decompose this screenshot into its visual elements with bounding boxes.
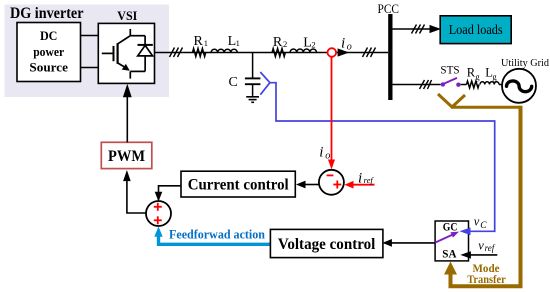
arrow into load [430, 25, 442, 33]
svg-text:C: C [229, 75, 238, 90]
current control box [181, 171, 295, 197]
PCC bus bar [388, 14, 392, 100]
mode transfer arrow into SA [449, 274, 453, 289]
svg-text:Transfer: Transfer [467, 274, 506, 286]
wire Lg to grid [499, 84, 502, 86]
DC power source block [17, 23, 81, 82]
svg-text:v: v [478, 238, 484, 252]
wire iref into S1 [352, 184, 375, 186]
transistor emitter arrow [122, 64, 130, 71]
wire S2 to PWM [127, 181, 146, 213]
wire S1 to current control [305, 184, 319, 186]
svg-text:i: i [319, 145, 323, 161]
sum junction S2 [146, 201, 171, 226]
svg-text:DG inverter: DG inverter [10, 5, 84, 22]
svg-text:PWM: PWM [108, 148, 145, 165]
arrow current flow right [338, 48, 350, 56]
resistor R2 [272, 49, 285, 57]
resistor Rg [467, 81, 480, 88]
svg-text:g: g [475, 71, 480, 81]
wire STS to Rg [461, 84, 467, 86]
source utility grid [502, 69, 536, 103]
svg-text:Utility Grid: Utility Grid [501, 57, 549, 69]
svg-text:R: R [194, 34, 204, 49]
svg-text:STS: STS [440, 62, 459, 76]
inductor L2 [290, 49, 316, 53]
svg-text:R: R [273, 35, 283, 50]
switch STS [441, 82, 445, 86]
mode transfer chevron at STS [438, 94, 465, 107]
feedforward wire [159, 237, 271, 245]
svg-text:DC: DC [40, 28, 58, 43]
wire vref into SA [471, 254, 498, 256]
three-phase slash grid [420, 80, 432, 89]
svg-text:Current control: Current control [188, 177, 290, 194]
red feedback wire io [331, 57, 333, 160]
wire vC from capacitor to GC input [270, 83, 495, 232]
three-phase slash 2 [363, 48, 376, 58]
svg-text:Feedforwad action: Feedforwad action [169, 226, 266, 241]
svg-text:power: power [33, 44, 64, 59]
svg-text:o: o [325, 150, 330, 161]
wire VSI output main line [155, 52, 389, 54]
svg-text:ref: ref [485, 243, 496, 253]
svg-text:i: i [358, 171, 362, 187]
VSI box [98, 23, 154, 83]
svg-text:1: 1 [204, 38, 208, 48]
switch arm purple [435, 235, 452, 243]
svg-text:2: 2 [283, 39, 287, 49]
DG inverter enclosure [5, 5, 170, 98]
diode D1 [138, 36, 153, 72]
voltage probe chevron vC [260, 72, 270, 95]
resistor R1 [193, 49, 206, 57]
svg-text:2: 2 [311, 39, 315, 49]
PWM box [101, 142, 152, 168]
ground [246, 97, 259, 103]
svg-text:g: g [492, 71, 497, 81]
svg-text:PCC: PCC [378, 1, 400, 16]
sum junction S1 current loop [319, 170, 344, 195]
svg-text:o: o [347, 42, 352, 53]
svg-text:Voltage control: Voltage control [278, 236, 376, 253]
svg-text:ref: ref [364, 175, 375, 185]
inductor L1 [211, 49, 237, 52]
inductor Lg [480, 82, 499, 85]
wire GCSA to voltage control [392, 242, 436, 244]
mode transfer wire [451, 106, 521, 109]
three-phase slash load [412, 25, 425, 34]
GC SA selector box [435, 221, 468, 261]
wire grid branch [393, 84, 441, 86]
svg-text:i: i [341, 36, 345, 52]
svg-text:C: C [480, 221, 487, 231]
arrow vC into GC redraw [460, 228, 471, 236]
svg-text:v: v [474, 214, 480, 228]
transistor IGBT [102, 29, 145, 79]
wire current control to S2 [159, 186, 182, 200]
three-phase slash 1 [170, 48, 183, 58]
voltage control box [270, 229, 383, 257]
svg-text:SA: SA [442, 249, 457, 261]
wire DC to VSI upper [81, 35, 99, 37]
svg-text:VSI: VSI [117, 8, 137, 23]
svg-text:GC: GC [443, 222, 458, 234]
svg-text:1: 1 [236, 38, 240, 48]
svg-text:Load loads: Load loads [449, 22, 503, 37]
load box [440, 16, 511, 44]
wire DC to VSI lower [81, 67, 99, 69]
wire load branch [393, 28, 431, 30]
capacitor C [245, 53, 261, 96]
wire PWM to VSI [126, 97, 128, 142]
svg-text:Source: Source [29, 59, 68, 74]
arrow vC into GC [460, 228, 471, 236]
node io current sensor (red circle) [328, 48, 337, 57]
